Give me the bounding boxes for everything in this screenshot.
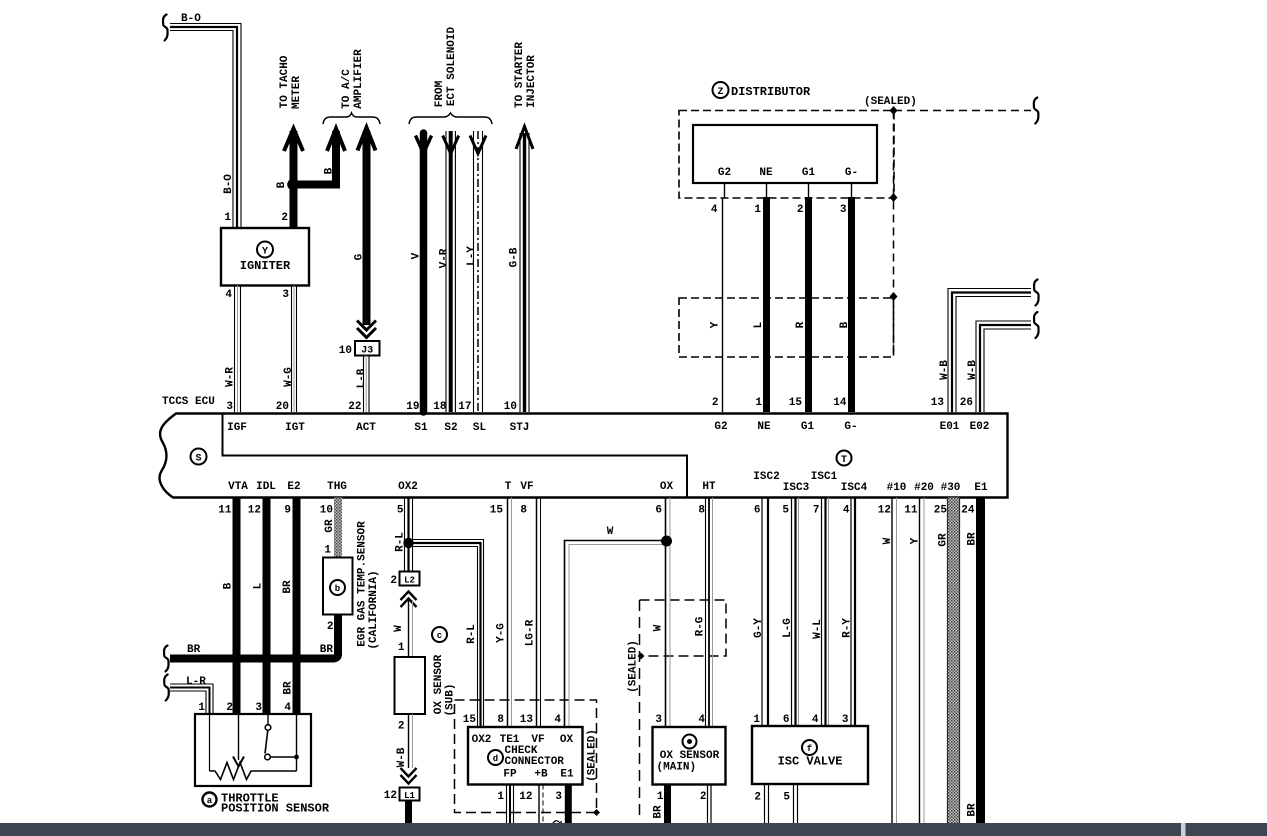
wire L-Y from ECT solenoid (dash-dot) bbox=[470, 131, 486, 412]
label W-B bbox=[396, 747, 408, 767]
label OX SENSOR (SUB) bbox=[433, 654, 457, 716]
wire B-O (triple line, elbow to igniter pin 1) bbox=[170, 24, 241, 229]
label Y bbox=[710, 321, 722, 328]
pin 2 TPS bbox=[226, 702, 233, 714]
pin 12 ECU IDL bbox=[248, 505, 261, 517]
svg-text:G-Y: G-Y bbox=[753, 618, 765, 638]
svg-text:ISC3: ISC3 bbox=[783, 482, 810, 494]
svg-text:1: 1 bbox=[324, 545, 331, 557]
svg-text:12: 12 bbox=[384, 790, 397, 802]
wire BR E2 to TPS pin 4 (thick) bbox=[293, 498, 301, 715]
svg-text:8: 8 bbox=[520, 505, 527, 517]
svg-text:TO TACHO: TO TACHO bbox=[279, 55, 291, 108]
label B at junction bbox=[276, 181, 288, 188]
chevrons above J3 bbox=[357, 321, 376, 338]
TPS symbol a bbox=[203, 793, 217, 807]
throttle position sensor box bbox=[195, 714, 311, 786]
EGR gas temp sensor box bbox=[323, 558, 353, 615]
igniter box bbox=[221, 228, 309, 286]
symbol c bbox=[432, 627, 447, 642]
node B junction bbox=[287, 179, 299, 191]
sealed dashed vertical OX main bbox=[639, 600, 641, 820]
pin 11 ECU VTA bbox=[218, 505, 232, 517]
label TO A/C AMPLIFIER bbox=[341, 49, 365, 109]
svg-text:ISC4: ISC4 bbox=[841, 482, 868, 494]
pin 8 ECU VF bbox=[520, 505, 527, 517]
pin 1 ISC valve bbox=[753, 714, 760, 726]
label G bbox=[354, 253, 366, 260]
svg-text:G1: G1 bbox=[802, 167, 816, 179]
wire +B bbox=[539, 785, 543, 825]
svg-text:S1: S1 bbox=[414, 422, 428, 434]
label BR left bbox=[187, 644, 201, 656]
label BR bbox=[282, 580, 294, 594]
svg-text:7: 7 bbox=[813, 505, 820, 517]
svg-text:2: 2 bbox=[390, 575, 397, 587]
pin 18 ECU S2 bbox=[433, 401, 447, 413]
svg-text:8: 8 bbox=[497, 714, 504, 726]
wire B branch to A/C amplifier (thick, with arrow) bbox=[294, 129, 346, 185]
svg-text:6: 6 bbox=[754, 505, 761, 517]
svg-text:15: 15 bbox=[490, 505, 504, 517]
svg-text:INJECTOR: INJECTOR bbox=[526, 55, 538, 108]
pin 24 ECU E1 bbox=[961, 505, 975, 517]
wire R-G HT to OX main heater bbox=[706, 498, 713, 728]
junction J3 bbox=[339, 341, 380, 357]
label W-G bbox=[283, 367, 295, 387]
svg-text:Y: Y bbox=[910, 537, 922, 544]
svg-text:6: 6 bbox=[655, 505, 662, 517]
svg-text:ISC2: ISC2 bbox=[753, 471, 779, 483]
svg-text:#10: #10 bbox=[887, 482, 907, 494]
svg-text:8: 8 bbox=[698, 505, 705, 517]
ECU outline bbox=[160, 414, 1008, 498]
check connector terminal labels bbox=[472, 734, 574, 746]
pin 2 EGR sensor bbox=[327, 621, 334, 633]
svg-text:(MAIN): (MAIN) bbox=[657, 762, 697, 774]
svg-text:22: 22 bbox=[348, 401, 361, 413]
wire R-G below OX main bbox=[708, 785, 712, 825]
label R-Y bbox=[842, 618, 854, 638]
svg-text:W-R: W-R bbox=[225, 367, 237, 387]
sealed junction diamonds bbox=[890, 106, 898, 301]
svg-text:TCCS ECU: TCCS ECU bbox=[162, 396, 215, 408]
label Y bbox=[910, 537, 922, 544]
wire GR THG to EGR sensor (shielded stipple) bbox=[334, 498, 342, 558]
svg-text:5: 5 bbox=[783, 792, 790, 804]
wire L-G ISC3 bbox=[792, 498, 799, 727]
svg-text:4: 4 bbox=[812, 714, 819, 726]
ECU bottom terminal labels bbox=[228, 471, 988, 494]
svg-text:20: 20 bbox=[276, 401, 289, 413]
label L-G bbox=[782, 618, 794, 638]
wire W-B E01 (elbow right with brace) bbox=[948, 280, 1039, 413]
label L-R bbox=[186, 676, 206, 688]
bottom window bar bbox=[0, 823, 1267, 836]
label GR bbox=[938, 533, 950, 547]
svg-text:5: 5 bbox=[782, 505, 789, 517]
svg-text:11: 11 bbox=[218, 505, 232, 517]
svg-text:IDL: IDL bbox=[256, 481, 276, 493]
label W-L bbox=[812, 619, 824, 639]
svg-text:(SEALED): (SEALED) bbox=[587, 729, 599, 782]
ISC valve box bbox=[752, 726, 868, 784]
diamond OX main bbox=[638, 653, 645, 660]
wire V from ECT solenoid (thick, arrow down) bbox=[416, 133, 432, 412]
svg-text:B: B bbox=[223, 582, 235, 589]
svg-text:NE: NE bbox=[759, 167, 773, 179]
symbol d bbox=[488, 750, 503, 765]
label BR lower bbox=[283, 681, 295, 695]
label B at branch bbox=[324, 167, 336, 174]
label GR bbox=[324, 519, 336, 533]
svg-text:2: 2 bbox=[797, 204, 804, 216]
label R bbox=[795, 321, 807, 328]
svg-text:W-B: W-B bbox=[396, 747, 408, 767]
pin 4 TPS bbox=[284, 702, 291, 714]
check connector bottom terminal labels bbox=[503, 769, 574, 781]
chevrons below L2 bbox=[401, 592, 417, 608]
svg-text:2: 2 bbox=[754, 792, 761, 804]
svg-text:IGF: IGF bbox=[227, 422, 247, 434]
OX sensor sub box bbox=[395, 657, 426, 714]
wire W-R igniter to ECU IGF bbox=[235, 286, 241, 413]
svg-text:METER: METER bbox=[291, 76, 303, 109]
svg-text:E1: E1 bbox=[560, 769, 574, 781]
svg-text:G2: G2 bbox=[714, 421, 727, 433]
svg-text:GR: GR bbox=[324, 519, 336, 533]
wire BR OX main ground (thick) bbox=[664, 785, 671, 825]
svg-text:R: R bbox=[795, 321, 807, 328]
pin 2 OX sub bbox=[398, 721, 405, 733]
svg-text:BR: BR bbox=[282, 580, 294, 594]
svg-text:POSITION SENSOR: POSITION SENSOR bbox=[221, 802, 330, 816]
TPS potentiometer resistor bbox=[210, 763, 297, 780]
wire FP (triple) bbox=[507, 785, 514, 825]
pin 1 TPS bbox=[198, 702, 205, 714]
label L-Y bbox=[466, 246, 478, 266]
label (SEALED) top bbox=[864, 96, 917, 108]
svg-text:3: 3 bbox=[282, 289, 289, 301]
svg-text:24: 24 bbox=[961, 505, 975, 517]
label BR bottom bbox=[967, 803, 979, 817]
label EGR GAS TEMP SENSOR (CALIFORNIA) bbox=[357, 521, 381, 650]
svg-text:W: W bbox=[393, 625, 405, 632]
sealed dashed line top bbox=[894, 110, 1031, 112]
label W bbox=[882, 537, 894, 544]
wire R G1 to ECU (thick) bbox=[805, 197, 812, 412]
svg-text:L-R: L-R bbox=[186, 676, 206, 688]
svg-text:3: 3 bbox=[226, 401, 233, 413]
pin 2 OX main bbox=[700, 791, 707, 803]
svg-text:3: 3 bbox=[255, 702, 262, 714]
svg-text:10: 10 bbox=[339, 345, 352, 357]
svg-text:17: 17 bbox=[458, 401, 471, 413]
label DISTRIBUTOR bbox=[731, 85, 811, 99]
pin 5 ECU ISC3 bbox=[782, 505, 789, 517]
svg-text:GR: GR bbox=[938, 533, 950, 547]
TPS internal wire pin1 bbox=[209, 714, 211, 771]
svg-text:LG-R: LG-R bbox=[525, 619, 537, 646]
svg-text:1: 1 bbox=[657, 791, 664, 803]
svg-text:ECT SOLENOID: ECT SOLENOID bbox=[446, 26, 458, 106]
svg-text:1: 1 bbox=[224, 212, 231, 224]
svg-text:OX2: OX2 bbox=[472, 734, 492, 746]
svg-text:4: 4 bbox=[225, 289, 232, 301]
pin 4 igniter bbox=[225, 289, 232, 301]
label V-R bbox=[439, 248, 451, 268]
svg-text:B: B bbox=[324, 167, 336, 174]
svg-text:BR: BR bbox=[653, 805, 665, 819]
wire R-L OX2 (triple) bbox=[405, 498, 413, 572]
svg-text:1: 1 bbox=[753, 714, 760, 726]
svg-text:15: 15 bbox=[789, 397, 803, 409]
pin 3 ECU IGF bbox=[226, 401, 233, 413]
pin 5 ISC valve bottom bbox=[783, 792, 790, 804]
pin 1 EGR sensor bbox=[324, 545, 331, 557]
harness brace B-O left bbox=[163, 15, 168, 41]
wire B VTA to TPS pin 2 (thick) bbox=[233, 498, 241, 715]
label L bbox=[253, 582, 265, 589]
distributor outer dashed box bbox=[679, 111, 894, 199]
svg-text:(CALIFORNIA): (CALIFORNIA) bbox=[368, 570, 380, 649]
svg-text:TO STARTER: TO STARTER bbox=[514, 42, 526, 108]
svg-text:f: f bbox=[807, 744, 812, 754]
brace L-R harness bbox=[164, 675, 169, 701]
wire E1 check connector (thick) bbox=[565, 785, 572, 825]
distributor inner box bbox=[693, 125, 877, 183]
svg-text:THG: THG bbox=[327, 481, 347, 493]
svg-text:4: 4 bbox=[711, 204, 718, 216]
svg-text:9: 9 bbox=[284, 505, 291, 517]
svg-text:VF: VF bbox=[520, 481, 533, 493]
svg-text:3: 3 bbox=[555, 791, 562, 803]
svg-text:1: 1 bbox=[497, 791, 504, 803]
svg-text:L: L bbox=[753, 321, 765, 328]
ECU inner divider bbox=[223, 414, 688, 497]
wire BR E1 ground (thick) bbox=[976, 498, 985, 825]
check connector pin numbers bottom bbox=[497, 791, 562, 803]
svg-text:Y: Y bbox=[710, 321, 722, 328]
pin 6 ISC valve bbox=[783, 714, 790, 726]
svg-text:+B: +B bbox=[534, 769, 548, 781]
svg-text:G2: G2 bbox=[718, 167, 731, 179]
label (SEALED) check connector bbox=[587, 729, 599, 782]
svg-text:#30: #30 bbox=[941, 482, 961, 494]
sealed dashed box OX main bbox=[640, 600, 727, 656]
svg-text:#20: #20 bbox=[914, 482, 934, 494]
connector S symbol bbox=[191, 449, 207, 465]
chevrons above L1 bbox=[401, 768, 417, 784]
svg-text:AMPLIFIER: AMPLIFIER bbox=[353, 49, 365, 109]
wire ISC5 below bbox=[794, 784, 798, 824]
svg-text:12: 12 bbox=[519, 791, 532, 803]
svg-text:T: T bbox=[505, 481, 512, 493]
svg-text:R-L: R-L bbox=[466, 624, 478, 644]
svg-text:Y: Y bbox=[262, 247, 268, 258]
svg-text:13: 13 bbox=[931, 397, 945, 409]
svg-text:Z: Z bbox=[717, 87, 723, 98]
svg-text:12: 12 bbox=[248, 505, 261, 517]
svg-text:13: 13 bbox=[520, 714, 534, 726]
svg-text:L-G: L-G bbox=[782, 618, 794, 638]
wire LG-R VF to check connector bbox=[537, 498, 541, 728]
svg-text:(SEALED): (SEALED) bbox=[864, 96, 917, 108]
svg-text:SL: SL bbox=[473, 422, 487, 434]
junction L2 bbox=[390, 572, 419, 588]
wire W-L ISC1 bbox=[822, 498, 829, 727]
svg-text:10: 10 bbox=[504, 401, 517, 413]
svg-text:3: 3 bbox=[842, 714, 849, 726]
label W vertical bbox=[653, 624, 665, 631]
wire ground L1 (thick) bbox=[405, 801, 412, 825]
svg-text:4: 4 bbox=[554, 714, 561, 726]
svg-text:15: 15 bbox=[463, 714, 477, 726]
distributor symbol Z bbox=[713, 82, 729, 98]
svg-text:ISC VALVE: ISC VALVE bbox=[778, 755, 843, 769]
svg-text:6: 6 bbox=[783, 714, 790, 726]
pin 1 OX main bbox=[657, 791, 664, 803]
svg-text:4: 4 bbox=[843, 505, 850, 517]
svg-text:W-B: W-B bbox=[967, 360, 979, 380]
svg-text:OX SENSOR: OX SENSOR bbox=[660, 750, 720, 762]
svg-text:ISC1: ISC1 bbox=[811, 471, 838, 483]
pin 3 TPS bbox=[255, 702, 262, 714]
pin 6 ECU OX bbox=[655, 505, 662, 517]
label OX SENSOR (MAIN) bbox=[657, 750, 720, 774]
pin 3 OX main bbox=[655, 714, 662, 726]
pin 12 ECU #10 bbox=[878, 505, 891, 517]
label BR OX main bbox=[653, 805, 665, 819]
pin 9 ECU E2 bbox=[284, 505, 291, 517]
TPS idle switch bbox=[265, 714, 297, 760]
wire L NE to ECU (thick) bbox=[763, 197, 770, 412]
svg-text:B: B bbox=[839, 321, 851, 328]
pin 2 igniter bbox=[281, 212, 288, 224]
pin 10 ECU STJ bbox=[504, 401, 517, 413]
label THROTTLE POSITION SENSOR bbox=[221, 792, 330, 816]
svg-text:10: 10 bbox=[320, 505, 333, 517]
pin 17 ECU SL bbox=[458, 401, 471, 413]
svg-text:CONNECTOR: CONNECTOR bbox=[505, 756, 565, 768]
pin 7 ECU ISC1 bbox=[813, 505, 820, 517]
wire L IDL to TPS pin 3 (thick) bbox=[263, 498, 271, 715]
svg-text:a: a bbox=[207, 796, 213, 806]
svg-text:FP: FP bbox=[503, 769, 517, 781]
ECU pins 2 1 15 14 bbox=[712, 397, 847, 409]
junction L1 bbox=[384, 788, 420, 803]
svg-text:W: W bbox=[882, 537, 894, 544]
svg-text:W-B: W-B bbox=[939, 360, 951, 380]
pin 1 OX sub bbox=[398, 642, 405, 654]
label BR right bbox=[320, 644, 334, 656]
wire W L2 to OX sub sensor bbox=[409, 600, 413, 657]
svg-text:NE: NE bbox=[757, 421, 771, 433]
svg-text:ACT: ACT bbox=[356, 422, 376, 434]
svg-text:OX SENSOR: OX SENSOR bbox=[433, 654, 445, 714]
svg-text:L-B: L-B bbox=[356, 368, 368, 388]
svg-text:1: 1 bbox=[754, 204, 761, 216]
svg-text:TO A/C: TO A/C bbox=[341, 69, 353, 109]
pin 3 ISC valve bbox=[842, 714, 849, 726]
svg-text:25: 25 bbox=[934, 505, 948, 517]
sealed dashed box check connector bbox=[455, 700, 597, 813]
svg-text:5: 5 bbox=[397, 505, 404, 517]
svg-text:3: 3 bbox=[840, 204, 847, 216]
svg-text:W-L: W-L bbox=[812, 619, 824, 639]
svg-text:BR: BR bbox=[320, 644, 334, 656]
svg-text:VTA: VTA bbox=[228, 481, 248, 493]
pin 2 ISC valve bottom bbox=[754, 792, 761, 804]
svg-text:BR: BR bbox=[187, 644, 201, 656]
svg-text:W: W bbox=[607, 526, 614, 538]
wire R-Y ISC4 bbox=[851, 498, 855, 727]
svg-text:G1: G1 bbox=[801, 421, 815, 433]
pin 25 ECU #30 bbox=[934, 505, 948, 517]
pin 3 igniter bbox=[282, 289, 289, 301]
pin 5 ECU OX2 bbox=[397, 505, 404, 517]
pin 20 ECU IGT bbox=[276, 401, 289, 413]
label (SEALED) OX main bbox=[628, 640, 640, 693]
pin 6 ECU ISC2 bbox=[754, 505, 761, 517]
distributor pin stubs bbox=[725, 183, 852, 198]
svg-text:c: c bbox=[437, 631, 442, 641]
svg-text:2: 2 bbox=[327, 621, 334, 633]
label FROM ECT SOLENOID bbox=[434, 26, 458, 107]
label B-O vertical bbox=[223, 174, 235, 194]
pin 13 ECU E01 bbox=[931, 397, 945, 409]
svg-text:R-G: R-G bbox=[695, 616, 707, 636]
node W junction bbox=[661, 536, 672, 547]
svg-text:1: 1 bbox=[198, 702, 205, 714]
svg-text:L1: L1 bbox=[404, 791, 415, 801]
label R-L bbox=[395, 532, 407, 552]
label L bbox=[753, 321, 765, 328]
wire L-R to TPS pin 1 (triple elbow) bbox=[170, 684, 213, 714]
svg-text:14: 14 bbox=[833, 397, 847, 409]
svg-text:IGNITER: IGNITER bbox=[240, 259, 291, 273]
svg-text:Y-G: Y-G bbox=[496, 623, 508, 643]
label BR top bbox=[967, 532, 979, 546]
label W horizontal bbox=[607, 526, 614, 538]
svg-text:W: W bbox=[653, 624, 665, 631]
distributor pin numbers bbox=[711, 204, 847, 216]
wire W OX to sensor bbox=[666, 498, 671, 728]
svg-text:BR: BR bbox=[967, 532, 979, 546]
svg-text:L2: L2 bbox=[404, 576, 415, 586]
svg-text:G-: G- bbox=[844, 421, 857, 433]
label W-R bbox=[225, 367, 237, 387]
pin 4 ISC valve bbox=[812, 714, 819, 726]
pin 11 ECU #20 bbox=[904, 505, 918, 517]
svg-text:V-R: V-R bbox=[439, 248, 451, 268]
svg-text:FROM: FROM bbox=[434, 80, 446, 107]
svg-text:G: G bbox=[354, 253, 366, 260]
svg-text:E1: E1 bbox=[974, 482, 988, 494]
wire Y-G T to check connector bbox=[508, 498, 512, 728]
wire Y injector #20 bbox=[920, 498, 925, 825]
svg-text:OX: OX bbox=[560, 734, 574, 746]
svg-text:EGR GAS TEMP.SENSOR: EGR GAS TEMP.SENSOR bbox=[357, 521, 369, 647]
svg-text:12: 12 bbox=[878, 505, 891, 517]
label TO STARTER INJECTOR bbox=[514, 42, 538, 108]
pin 26 ECU E02 bbox=[960, 397, 973, 409]
svg-text:26: 26 bbox=[960, 397, 973, 409]
svg-text:4: 4 bbox=[284, 702, 291, 714]
label Y-G bbox=[496, 623, 508, 643]
svg-text:E02: E02 bbox=[970, 421, 990, 433]
svg-text:E2: E2 bbox=[287, 481, 300, 493]
